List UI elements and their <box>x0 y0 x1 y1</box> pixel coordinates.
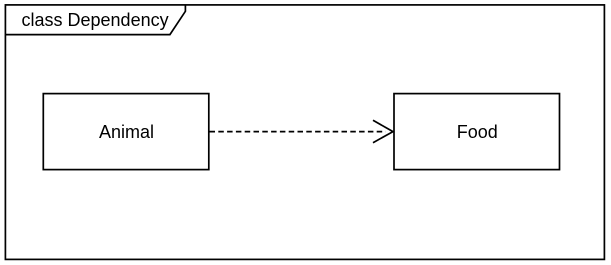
svg-text:Animal: Animal <box>99 122 154 142</box>
dependency dashed line Animal to Food <box>210 131 386 133</box>
class Animal box <box>43 94 209 170</box>
svg-text:Food: Food <box>457 122 498 142</box>
svg-text:class Dependency: class Dependency <box>22 10 169 30</box>
frame title tab <box>5 5 185 35</box>
class Food box <box>394 94 560 170</box>
dependency open arrowhead <box>373 120 393 142</box>
